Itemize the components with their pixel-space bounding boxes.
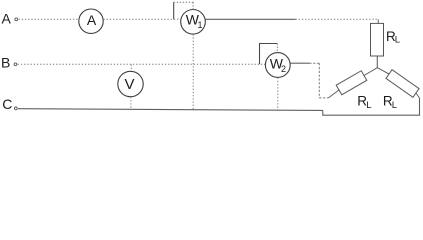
wire <box>376 56 378 68</box>
wire <box>318 63 320 98</box>
wattmeter W1 <box>181 9 206 34</box>
wire <box>377 68 389 74</box>
W1 voltage coil tap <box>174 2 194 19</box>
svg-text:V: V <box>124 76 134 93</box>
wire <box>192 34 194 110</box>
wire <box>319 97 328 99</box>
ammeter A1 <box>79 9 103 33</box>
wire <box>18 109 323 111</box>
terminal B <box>14 63 17 66</box>
wire <box>19 18 79 20</box>
svg-text:2: 2 <box>281 64 286 74</box>
svg-text:A: A <box>87 12 97 28</box>
voltmeter V1 <box>118 71 143 96</box>
wire <box>18 63 266 65</box>
wire <box>309 62 319 64</box>
wire <box>130 64 132 71</box>
svg-text:1: 1 <box>198 20 203 30</box>
wire <box>328 90 339 98</box>
wire <box>323 98 420 115</box>
wire <box>364 68 377 76</box>
wattmeter W2 <box>265 53 290 78</box>
wire <box>205 18 295 20</box>
resistor RL2 <box>336 71 367 95</box>
wire <box>103 18 180 20</box>
svg-text:C: C <box>2 96 12 112</box>
label RL3 <box>383 94 397 111</box>
wire <box>296 18 379 20</box>
svg-text:L: L <box>392 100 397 111</box>
svg-text:B: B <box>1 54 10 70</box>
label RL2 <box>357 94 371 111</box>
svg-text:L: L <box>366 100 371 111</box>
resistor RL3 <box>386 70 419 98</box>
wire <box>377 19 379 23</box>
W2 voltage coil tap <box>260 44 278 65</box>
svg-text:L: L <box>395 35 400 46</box>
terminal C <box>14 107 17 110</box>
svg-text:A: A <box>2 11 12 27</box>
wire <box>277 78 279 111</box>
terminal A <box>15 18 18 21</box>
wire <box>416 93 420 98</box>
resistor RL1 <box>371 23 384 56</box>
wire <box>290 62 309 64</box>
wire <box>130 97 132 109</box>
label RL1 <box>386 29 400 46</box>
